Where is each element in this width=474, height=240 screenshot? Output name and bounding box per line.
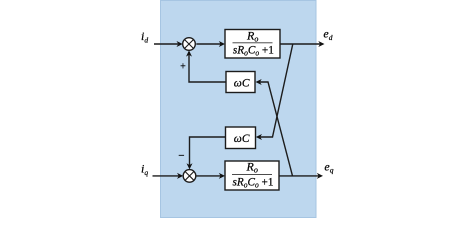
svg-text:sRoCo +1: sRoCo +1 [233,43,274,58]
svg-text:sRoCo +1: sRoCo +1 [233,174,274,189]
svg-text:+: + [180,61,187,72]
svg-text:ωC: ωC [234,78,250,90]
svg-text:−: − [178,150,185,162]
svg-text:ωC: ωC [234,133,250,145]
svg-text:ed: ed [323,27,332,42]
svg-text:eq: eq [324,159,333,174]
svg-text:iq: iq [141,162,148,177]
svg-text:id: id [141,29,148,44]
